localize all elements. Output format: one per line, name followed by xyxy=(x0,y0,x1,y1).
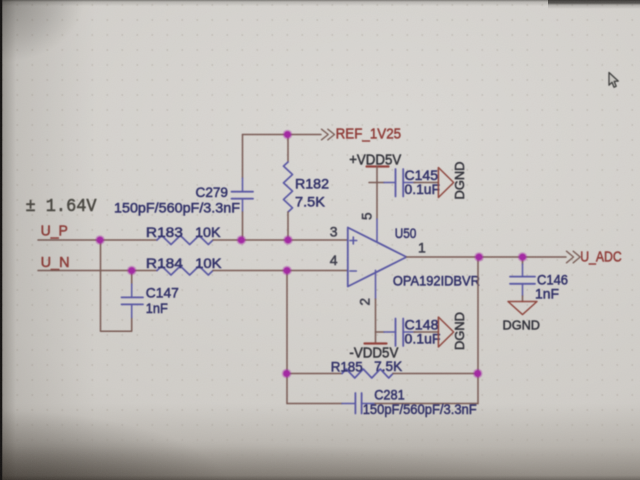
wire U_N left xyxy=(38,270,157,272)
resistor R182 xyxy=(284,162,293,212)
svg-text:R184: R184 xyxy=(146,256,184,271)
wire pin2 to -VDD5V xyxy=(375,299,377,344)
pin stub C148 right xyxy=(403,331,415,333)
op-amp plus sign xyxy=(350,237,357,244)
svg-text:C279: C279 xyxy=(196,185,229,200)
junction node R185 left xyxy=(282,369,292,379)
svg-text:C281: C281 xyxy=(374,388,405,403)
pin 2 stub xyxy=(375,270,377,299)
svg-text:R183: R183 xyxy=(146,225,183,240)
svg-text:R182: R182 xyxy=(295,177,329,192)
wire R185 row right xyxy=(393,373,478,375)
svg-text:7.5K: 7.5K xyxy=(295,195,325,210)
wire C146 to DGND xyxy=(522,296,524,302)
svg-text:± 1.64V: ± 1.64V xyxy=(26,197,97,217)
junction node C279/pin3 xyxy=(237,235,247,245)
junction node REF/R182 xyxy=(283,130,293,140)
pin stub C281 left xyxy=(342,403,355,405)
svg-text:0.1uF: 0.1uF xyxy=(405,182,441,197)
junction node output/feedback xyxy=(474,252,484,262)
junction node output/C146 xyxy=(518,252,528,262)
svg-text:10K: 10K xyxy=(195,225,221,240)
capacitor C145 xyxy=(396,169,404,197)
svg-text:U_ADC: U_ADC xyxy=(580,249,622,266)
svg-text:150pF/560pF/3.3nF: 150pF/560pF/3.3nF xyxy=(363,402,477,417)
junction node feedback/pin4 xyxy=(282,266,292,276)
power +VDD5V bar xyxy=(367,165,389,167)
net label REF_1V25 chevron xyxy=(322,129,335,140)
svg-text:2: 2 xyxy=(358,298,373,306)
svg-text:R185: R185 xyxy=(331,360,363,375)
pin stub C281 right xyxy=(362,403,375,405)
svg-text:0.1uF: 0.1uF xyxy=(405,331,441,346)
svg-text:REF_1V25: REF_1V25 xyxy=(336,126,402,143)
svg-text:U_N: U_N xyxy=(41,254,70,271)
wire +VDD5V down xyxy=(376,167,378,220)
svg-text:C148: C148 xyxy=(405,318,439,333)
wire C148 to DGND xyxy=(414,331,438,333)
capacitor C281 xyxy=(355,393,361,414)
wire U_N junction down to C147 xyxy=(131,271,133,285)
junction node U_P/C147 loop xyxy=(95,235,105,245)
pin 5 stub xyxy=(376,219,378,242)
pin stub C279 bottom xyxy=(242,199,244,212)
pin stub C147 top xyxy=(131,284,133,297)
wire +VDD5V branch to C145 xyxy=(369,182,384,184)
wire C281 row right xyxy=(375,403,478,405)
capacitor C279 xyxy=(232,192,254,199)
net label U_ADC chevron xyxy=(567,251,581,263)
wire U_P to C147 loop xyxy=(101,240,132,331)
wire C146 drop xyxy=(522,257,524,264)
pin stub C146 bottom xyxy=(522,284,524,296)
svg-text:10K: 10K xyxy=(195,256,222,271)
svg-text:150pF/560pF/3.3nF: 150pF/560pF/3.3nF xyxy=(114,201,240,216)
svg-text:C147: C147 xyxy=(146,286,179,301)
wire feedback vertical right xyxy=(477,257,479,404)
svg-text:3: 3 xyxy=(330,223,338,239)
pin stub C146 top xyxy=(522,264,524,276)
junction node R182/pin3 xyxy=(283,235,293,245)
ground DGND down-pointing (C146) xyxy=(508,302,537,315)
op-amp minus sign xyxy=(350,270,356,272)
svg-text:DGND: DGND xyxy=(452,312,467,350)
wire REF_1V25 vertical to C279 xyxy=(242,135,244,179)
svg-text:DGND: DGND xyxy=(452,162,467,200)
power -VDD5V bar xyxy=(365,342,387,344)
wire C145 to DGND xyxy=(414,182,438,184)
svg-text:U50: U50 xyxy=(395,225,417,241)
pin stub C279 top xyxy=(242,178,244,191)
capacitor C146 xyxy=(510,277,535,284)
svg-text:1nF: 1nF xyxy=(146,301,168,316)
wire C281 row left xyxy=(287,403,342,405)
svg-text:4: 4 xyxy=(330,252,338,268)
pin stub C145 right xyxy=(403,182,415,184)
wire U_N right to pin 4 xyxy=(213,270,348,272)
svg-text:U_P: U_P xyxy=(41,222,68,239)
capacitor C147 xyxy=(122,297,144,304)
svg-text:5: 5 xyxy=(360,212,375,220)
wire U_P right to pin 3 xyxy=(213,239,348,241)
svg-text:DGND: DGND xyxy=(503,317,541,332)
wire R182 top xyxy=(287,135,289,163)
wire branch to C148 xyxy=(376,331,385,333)
pin stub C148 left xyxy=(384,331,396,333)
op-amp U50 triangle xyxy=(348,228,407,287)
svg-text:C145: C145 xyxy=(405,168,439,183)
wire U_P left xyxy=(38,239,157,241)
resistor R184 xyxy=(157,266,213,275)
wire R182 bottom xyxy=(287,212,289,240)
ground DGND right-pointing (C145) xyxy=(438,168,453,198)
pin stub C147 bottom xyxy=(131,305,133,318)
svg-text:C146: C146 xyxy=(537,273,568,288)
wire REF_1V25 horizontal xyxy=(243,134,322,136)
wire R185 row left xyxy=(287,373,342,375)
svg-text:1: 1 xyxy=(418,240,426,256)
resistor R185 xyxy=(342,369,393,378)
junction node U_N/C147 xyxy=(127,266,137,276)
pin stub C145 left xyxy=(384,182,396,184)
svg-text:OPA192IDBVR: OPA192IDBVR xyxy=(393,274,480,289)
svg-text:1nF: 1nF xyxy=(535,287,559,302)
capacitor C148 xyxy=(396,319,404,347)
wire output pin1 xyxy=(407,256,567,258)
resistor R183 xyxy=(157,236,213,245)
wire C279 to node xyxy=(242,212,244,240)
junction node R185 right xyxy=(473,369,483,379)
svg-text:7.5K: 7.5K xyxy=(374,359,402,374)
mouse cursor xyxy=(609,73,618,88)
ground DGND right-pointing (C148) xyxy=(438,317,453,347)
wire feedback vertical left xyxy=(286,271,288,404)
